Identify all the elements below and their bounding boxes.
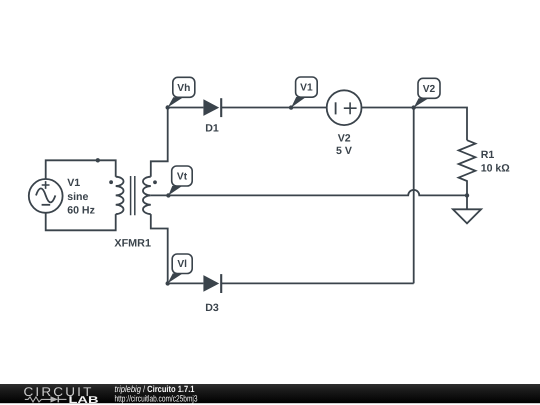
svg-text:LAB: LAB	[69, 395, 99, 405]
wire: main vertical net from node V2 down to bottom rail	[413, 108, 415, 284]
svg-text:sine: sine	[67, 191, 88, 203]
phase dot primary	[109, 180, 113, 184]
node flag V2	[414, 78, 440, 107]
wire: D1 cathode to source V2	[221, 107, 327, 109]
svg-text:R1: R1	[481, 149, 495, 161]
wire: node Vl to diode D3 anode	[168, 282, 204, 284]
ground	[453, 195, 481, 223]
wire: V1 top lead to primary top	[46, 160, 116, 179]
ground node junction dot	[465, 193, 469, 197]
svg-text:D3: D3	[205, 302, 219, 314]
label R1 10 kOhm	[481, 149, 511, 175]
svg-text:V2: V2	[423, 84, 436, 95]
wire: ground rail to center tap with hop over vertical net	[168, 190, 467, 196]
node Vl junction dot	[166, 281, 170, 285]
transformer XFMR1 secondary winding	[143, 177, 151, 214]
svg-text:10 kΩ: 10 kΩ	[481, 163, 511, 175]
svg-text:V2: V2	[338, 133, 351, 145]
node Vt junction dot	[166, 193, 170, 197]
node flag Vh	[168, 77, 195, 107]
node flag V1	[291, 77, 317, 108]
voltage source V1	[29, 179, 63, 213]
wire: V1 bottom lead to primary bottom	[46, 213, 116, 231]
diode D3	[203, 274, 221, 293]
junction dot on top-left rail	[96, 158, 100, 162]
svg-text:Vl: Vl	[177, 259, 187, 270]
svg-text:V1: V1	[67, 177, 80, 189]
phase dot secondary	[153, 180, 157, 184]
diode D1	[203, 98, 221, 117]
footer black bar	[0, 384, 540, 403]
wire: node Vh to diode D1 anode	[168, 107, 204, 109]
wire: secondary bottom lead down to node Vl	[151, 214, 168, 283]
wire: source V2 to top-right corner and down to R1	[361, 108, 467, 141]
transformer XFMR1 primary winding	[116, 177, 124, 214]
svg-text:http://circuitlab.com/c25bmj3: http://circuitlab.com/c25bmj3	[115, 393, 198, 403]
wire: secondary top lead up to node Vh	[151, 108, 168, 177]
node flag Vl	[168, 254, 193, 283]
label V2 5 V	[336, 133, 352, 158]
resistor R1	[459, 140, 476, 195]
wire: D3 cathode to main vertical net	[221, 282, 414, 284]
svg-text:XFMR1: XFMR1	[114, 237, 151, 249]
voltage source V2	[327, 90, 362, 125]
svg-text:60 Hz: 60 Hz	[67, 205, 95, 217]
transformer XFMR1 core	[131, 176, 135, 215]
CircuitLab logo resistor-diode glyph	[25, 396, 67, 402]
svg-text:V1: V1	[300, 83, 313, 94]
svg-text:D1: D1	[205, 123, 219, 135]
label V1 sine 60 Hz	[67, 177, 95, 217]
node Vh junction dot	[166, 105, 170, 109]
svg-text:5 V: 5 V	[336, 145, 352, 157]
node flag Vt	[168, 166, 192, 195]
svg-text:Vh: Vh	[177, 83, 190, 94]
node V2 junction dot	[412, 105, 416, 109]
wire: secondary center tap to node Vt	[151, 194, 169, 196]
svg-text:Vt: Vt	[177, 172, 188, 183]
node V1 junction dot	[289, 105, 293, 109]
